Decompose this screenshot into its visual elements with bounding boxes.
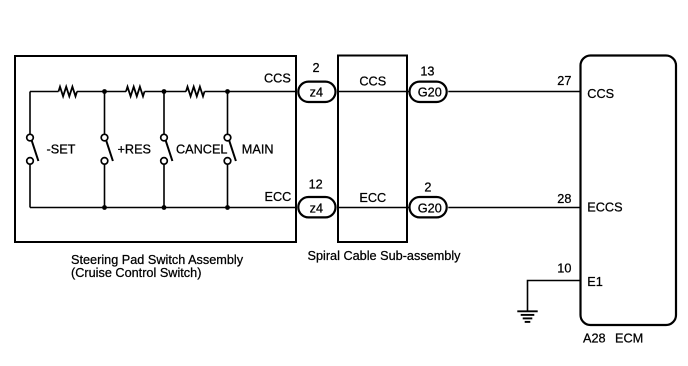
label CANCEL [176, 143, 227, 157]
connector z4 bottom oval [298, 197, 335, 217]
label A28 ECM [583, 332, 643, 346]
svg-text:ECM: ECM [615, 332, 643, 346]
junction top +RES [102, 89, 107, 94]
svg-text:-SET: -SET [47, 143, 76, 157]
box Spiral Cable Sub-assembly outline [338, 56, 407, 243]
wire ECC from G20 to ECM pin 28 [448, 207, 580, 209]
pin E1 name in ECM [587, 275, 603, 289]
connector G20 top oval [410, 82, 447, 102]
svg-text:27: 27 [557, 74, 571, 88]
junction top CANCEL [162, 89, 167, 94]
switch S4 MAIN [224, 92, 236, 208]
svg-text:Steering Pad Switch Assembly: Steering Pad Switch Assembly [71, 253, 244, 267]
label -SET [47, 143, 76, 157]
pin 10 number [557, 262, 571, 276]
connector z4 pin 12 label [309, 178, 323, 192]
connector G20 pin 2 label [424, 180, 431, 194]
node ECC label in switch box [265, 190, 292, 204]
svg-text:ECC: ECC [359, 191, 386, 205]
svg-text:ECCS: ECCS [587, 201, 622, 215]
svg-text:28: 28 [557, 192, 571, 206]
resistor R3 [186, 87, 205, 97]
svg-text:+RES: +RES [118, 143, 152, 157]
svg-text:G20: G20 [418, 201, 442, 215]
svg-text:E1: E1 [587, 275, 603, 289]
wire CCS net top horizontal inside switch box [30, 91, 297, 93]
connector z4 pin 2 label [312, 61, 319, 75]
svg-text:CCS: CCS [587, 87, 614, 101]
node CCS label in spiral cable box [359, 75, 386, 89]
svg-text:CCS: CCS [359, 75, 386, 89]
wire CCS through spiral cable box [337, 91, 409, 93]
svg-text:10: 10 [557, 262, 571, 276]
label Steering Pad Switch Assembly [71, 253, 244, 280]
switch S1 -SET [27, 134, 39, 207]
resistor R2 [126, 87, 145, 97]
resistor R1 [59, 87, 78, 97]
wire E1 from ECM pin 10 [528, 281, 581, 311]
connector G20 bottom oval [410, 197, 447, 217]
junction bottom MAIN [225, 205, 230, 210]
svg-text:12: 12 [309, 178, 323, 192]
junction bottom CANCEL [162, 205, 167, 210]
label +RES [118, 143, 152, 157]
node CCS label in switch box [264, 72, 291, 86]
svg-text:Spiral Cable Sub-assembly: Spiral Cable Sub-assembly [308, 249, 462, 263]
connector G20 pin 13 label [420, 65, 434, 79]
label MAIN [242, 143, 274, 157]
svg-text:MAIN: MAIN [242, 143, 274, 157]
svg-text:z4: z4 [310, 201, 323, 215]
switch S3 CANCEL [161, 92, 173, 208]
svg-text:G20: G20 [418, 85, 442, 99]
pin ECCS name in ECM [587, 201, 622, 215]
node ECC label in spiral cable box [359, 191, 386, 205]
wire ECC net bottom horizontal inside switch box [30, 207, 297, 209]
label Spiral Cable Sub-assembly [308, 249, 462, 263]
switch S2 +RES [101, 92, 113, 208]
svg-text:CANCEL: CANCEL [176, 143, 227, 157]
svg-text:2: 2 [312, 61, 319, 75]
junction bottom +RES [102, 205, 107, 210]
svg-text:2: 2 [424, 180, 431, 194]
svg-text:A28: A28 [583, 332, 606, 346]
connector z4 top oval [298, 82, 335, 102]
wire CCS from G20 to ECM pin 27 [448, 91, 580, 93]
pin 28 number [557, 192, 571, 206]
pin CCS name in ECM [587, 87, 614, 101]
svg-text:CCS: CCS [264, 72, 291, 86]
svg-text:z4: z4 [310, 85, 323, 99]
junction top MAIN [225, 89, 230, 94]
box ECM U1 outline [581, 56, 677, 326]
wire CCS top-left vertical drop to -SET switch [29, 92, 31, 135]
svg-text:ECC: ECC [265, 190, 292, 204]
svg-text:13: 13 [420, 65, 434, 79]
pin 27 number [557, 74, 571, 88]
svg-text:(Cruise Control Switch): (Cruise Control Switch) [71, 266, 201, 280]
wire ECC through spiral cable box [337, 207, 409, 209]
box Steering Pad Switch Assembly outline [15, 56, 296, 242]
ground [517, 311, 537, 322]
